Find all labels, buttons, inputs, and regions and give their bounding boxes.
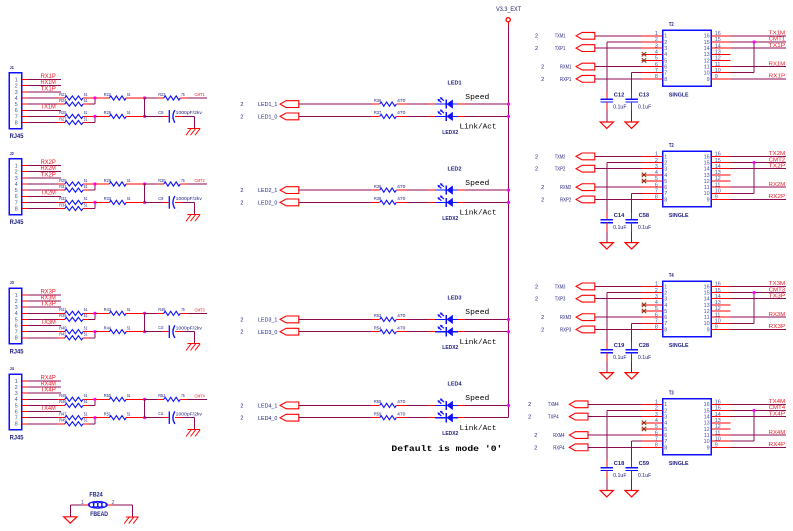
chassis ground: [124, 517, 138, 524]
svg-text:2: 2: [240, 317, 243, 323]
wire net TX3M: [731, 281, 787, 287]
port TXP2: [535, 165, 595, 172]
junction: [93, 96, 96, 99]
resistor R59 470: [372, 417, 380, 419]
text Link/Act: [460, 210, 497, 218]
chassis ground: [186, 128, 200, 135]
svg-text:2: 2: [528, 415, 531, 421]
svg-text:RX3M: RX3M: [41, 295, 56, 301]
junction: [143, 182, 146, 185]
junction on rail: [507, 318, 510, 321]
svg-text:C58: C58: [639, 213, 650, 219]
svg-text:TXP4: TXP4: [548, 415, 559, 421]
wire J1 pin 1: [22, 74, 61, 80]
right pin stubs: [711, 404, 730, 447]
wire net RX1P: [731, 74, 787, 80]
wire cap to ground: [631, 223, 633, 243]
svg-text:6: 6: [15, 194, 18, 200]
port LED2_0: [240, 199, 298, 207]
junction: [143, 96, 146, 99]
svg-text:RX3P: RX3P: [769, 324, 786, 330]
svg-text:51: 51: [127, 196, 131, 201]
svg-text:1: 1: [15, 293, 18, 299]
resistor R54 470: [372, 331, 380, 333]
svg-text:R37: R37: [374, 110, 382, 115]
svg-text:6: 6: [664, 433, 667, 439]
text Speed: [465, 309, 489, 317]
svg-text:51: 51: [127, 393, 131, 398]
wire RXM3 to pin: [595, 316, 642, 318]
resistor R29 51: [95, 183, 110, 185]
wire TXM2 to pin: [595, 155, 642, 157]
wire to junction: [126, 183, 144, 185]
wire pin 2 to C18: [607, 410, 642, 467]
svg-text:6: 6: [664, 315, 667, 321]
port LED2_1: [240, 187, 298, 195]
capacitor C9 1000pF/2kv: [145, 196, 203, 209]
svg-text:2: 2: [240, 114, 243, 120]
wire RXM4 to pin: [588, 434, 642, 436]
resistor R41 51: [59, 307, 88, 315]
capacitor C14 0.1uF: [601, 213, 627, 231]
wire to junction: [126, 115, 144, 117]
wire J2 pin 4: [22, 183, 65, 185]
wire cap to ground: [631, 353, 633, 373]
svg-text:0.1uF: 0.1uF: [613, 473, 627, 479]
junction: [93, 330, 96, 333]
port TXP3: [535, 295, 595, 302]
svg-text:2: 2: [541, 185, 544, 191]
svg-text:R31: R31: [59, 184, 67, 189]
resistor R34 51: [59, 202, 88, 210]
wire RXM1 to pin: [595, 66, 642, 68]
resistor R55 470: [372, 404, 380, 406]
resistor R45 75: [145, 312, 164, 314]
svg-text:R51: R51: [104, 411, 112, 416]
svg-text:6: 6: [664, 185, 667, 191]
wire J3 pin 4: [22, 312, 65, 314]
wire net CMT2: [731, 157, 787, 163]
svg-text:1: 1: [664, 34, 667, 40]
resistor R23 75: [145, 97, 164, 99]
resistor R30 75: [145, 183, 164, 185]
wire J4 pin 3: [22, 388, 61, 394]
resistor R39 470: [372, 201, 380, 203]
wire J1 pin 7: [22, 115, 65, 117]
wire net RX2M: [731, 182, 787, 188]
port LED3_1: [240, 316, 298, 324]
junction: [753, 409, 756, 412]
svg-text:LED3: LED3: [448, 296, 463, 302]
svg-text:12: 12: [704, 427, 710, 433]
connector J4 RJ45: [9, 366, 24, 441]
label LEDX2: [442, 216, 458, 222]
resistor R43 51: [95, 312, 110, 314]
svg-text:0.1uF: 0.1uF: [613, 105, 627, 111]
svg-text:R52: R52: [158, 393, 166, 398]
svg-text:Speed: Speed: [465, 309, 489, 317]
power ground: [625, 373, 638, 379]
svg-text:LED4: LED4: [448, 382, 463, 388]
svg-text:0.1uF: 0.1uF: [613, 225, 627, 231]
wire LED to rail: [458, 201, 508, 203]
svg-text:RJ45: RJ45: [10, 435, 24, 442]
power ground: [600, 373, 613, 379]
svg-text:Link/Act: Link/Act: [460, 124, 497, 132]
text Speed: [465, 180, 489, 188]
no-connect pin 4: [642, 173, 646, 177]
svg-text:C18: C18: [614, 461, 625, 467]
wire pin 10 to CMT net: [731, 293, 755, 324]
svg-text:RX4M: RX4M: [41, 381, 56, 387]
transformer T4: [663, 273, 712, 349]
svg-text:5: 5: [15, 317, 18, 323]
svg-text:RX4P: RX4P: [769, 442, 786, 448]
svg-text:R45: R45: [158, 307, 166, 312]
LED diode LED2_1: [435, 183, 458, 195]
svg-text:9: 9: [707, 327, 710, 333]
svg-text:16: 16: [704, 154, 710, 160]
svg-text:R39: R39: [374, 196, 382, 201]
label LEDX2: [442, 130, 458, 136]
wire to junction: [126, 417, 144, 419]
wire TXM4 to pin: [588, 403, 642, 405]
power ground: [64, 517, 77, 523]
svg-text:8: 8: [664, 77, 667, 83]
junction: [143, 398, 146, 401]
svg-text:TX1M: TX1M: [769, 31, 786, 37]
svg-text:RX2P: RX2P: [769, 194, 786, 200]
svg-text:TXP1: TXP1: [555, 46, 566, 52]
svg-text:R24: R24: [59, 98, 67, 103]
svg-text:R36: R36: [374, 98, 382, 103]
port RXP2: [541, 196, 595, 203]
svg-text:R27: R27: [59, 116, 67, 121]
svg-text:8: 8: [15, 120, 18, 126]
wire pair join: [83, 332, 95, 338]
svg-text:C14: C14: [614, 213, 625, 219]
svg-text:R49: R49: [59, 418, 67, 423]
capacitor C11 1000pF/2kv: [145, 411, 203, 424]
svg-text:LED3_1: LED3_1: [258, 318, 277, 324]
wire J1 pin 3: [22, 86, 61, 92]
svg-text:11: 11: [704, 315, 710, 321]
wire pin 7 to C58: [632, 193, 642, 220]
svg-text:4: 4: [15, 96, 18, 102]
wire port to resistor: [299, 189, 372, 191]
wire J3 pin 1: [22, 289, 61, 295]
svg-text:2: 2: [541, 197, 544, 203]
wire port to resistor: [299, 404, 372, 406]
capacitor C19 0.1uF: [601, 343, 627, 361]
LED diode LED1_1: [435, 97, 458, 109]
label LEDX2: [442, 431, 458, 437]
wire pair join: [83, 202, 95, 208]
svg-text:R23: R23: [158, 92, 166, 97]
wire to junction: [126, 97, 144, 99]
resistor R42 51: [59, 332, 88, 340]
svg-text:CMT1: CMT1: [195, 92, 206, 97]
wire to junction: [126, 201, 144, 203]
svg-text:TXM1: TXM1: [555, 34, 566, 40]
svg-text:3: 3: [15, 305, 18, 311]
resistor R26 51: [95, 115, 110, 117]
wire pair join: [83, 98, 95, 104]
svg-text:CMT2: CMT2: [769, 157, 786, 163]
svg-text:1: 1: [664, 402, 667, 408]
svg-text:10: 10: [704, 439, 710, 445]
power ground: [600, 491, 613, 497]
svg-text:4: 4: [15, 182, 18, 188]
junction: [143, 416, 146, 419]
svg-text:C9: C9: [158, 196, 163, 202]
junction on rail: [507, 103, 510, 106]
wire net TX2P: [731, 163, 787, 169]
resistor R49 51: [59, 418, 88, 426]
resistor R32 51: [59, 196, 88, 204]
svg-text:1000pF/2kv: 1000pF/2kv: [176, 411, 203, 416]
svg-text:2: 2: [664, 290, 667, 296]
capacitor C10 1000pF/2kv: [145, 325, 203, 338]
svg-text:LED2: LED2: [448, 166, 462, 172]
port TXP4: [528, 413, 588, 420]
wire cap to ground: [606, 223, 608, 243]
wire V3.3_EXT rail: [508, 22, 510, 418]
svg-text:15: 15: [704, 40, 710, 46]
svg-text:51: 51: [127, 178, 131, 183]
svg-text:C11: C11: [158, 411, 163, 417]
wire resistor to LED: [396, 404, 435, 406]
label LED2: [448, 166, 462, 172]
wire cap to ground: [631, 102, 633, 122]
power ground: [600, 122, 613, 128]
svg-text:9: 9: [707, 77, 710, 83]
svg-text:7: 7: [15, 416, 18, 422]
svg-text:8: 8: [15, 422, 18, 428]
svg-text:4: 4: [664, 173, 667, 179]
wire net TX4P: [731, 411, 787, 417]
svg-text:2: 2: [240, 403, 243, 409]
svg-text:LEDX2: LEDX2: [442, 216, 458, 222]
svg-text:2: 2: [240, 102, 243, 108]
svg-text:51: 51: [84, 98, 88, 103]
capacitor C18 0.1uF: [601, 461, 627, 479]
svg-text:1: 1: [15, 379, 18, 385]
svg-text:8: 8: [15, 336, 18, 342]
svg-text:TXM2: TXM2: [555, 154, 566, 160]
connector J1 RJ45: [9, 65, 24, 140]
resistor R47 51: [59, 411, 88, 419]
junction: [93, 398, 96, 401]
chassis ground: [186, 344, 200, 351]
left pin stubs: [642, 36, 663, 79]
svg-text:7: 7: [15, 200, 18, 206]
svg-text:51: 51: [84, 178, 88, 183]
wire pair join: [83, 116, 95, 122]
wire bead pin 1: [70, 505, 88, 517]
svg-text:5: 5: [15, 403, 18, 409]
wire J2 pin 2: [22, 166, 61, 172]
wire net TX4M: [731, 399, 787, 405]
svg-text:FB24: FB24: [89, 493, 103, 499]
no-connect pin 4: [642, 303, 646, 307]
pin numbers: [655, 152, 721, 204]
transformer T2: [663, 22, 712, 98]
svg-text:75: 75: [181, 92, 185, 97]
wire port to resistor: [299, 115, 372, 117]
svg-text:3: 3: [664, 46, 667, 52]
transformer T3: [663, 391, 712, 467]
pin numbers: [655, 282, 721, 334]
wire port to resistor: [299, 103, 372, 105]
svg-text:470: 470: [397, 196, 406, 201]
svg-text:2: 2: [541, 64, 544, 70]
svg-text:TX3M: TX3M: [769, 281, 786, 287]
wire node CMT3: [180, 307, 207, 313]
svg-text:14: 14: [704, 46, 710, 52]
capacitor C28 0.1uF: [625, 343, 651, 361]
svg-text:51: 51: [84, 196, 88, 201]
wire LED to rail: [458, 404, 508, 406]
port RXP3: [541, 326, 595, 333]
svg-text:11: 11: [704, 185, 710, 191]
svg-text:2: 2: [664, 160, 667, 166]
svg-text:10: 10: [704, 71, 710, 77]
svg-text:SINGLE: SINGLE: [669, 213, 689, 219]
svg-text:8: 8: [15, 206, 18, 212]
LED diode LED1_0: [435, 109, 458, 121]
svg-text:RJ45: RJ45: [10, 219, 24, 226]
wire LED to rail: [458, 318, 508, 320]
wire port to resistor: [299, 318, 372, 320]
junction on rail: [507, 115, 510, 118]
port RXM4: [534, 432, 588, 439]
svg-text:R22: R22: [104, 92, 112, 97]
no-connect pin 5: [642, 309, 646, 313]
svg-text:1000pF/2kv: 1000pF/2kv: [176, 325, 203, 330]
wire J1 pin 6: [22, 105, 61, 111]
svg-text:RXM4: RXM4: [553, 433, 564, 439]
svg-text:51: 51: [84, 307, 88, 312]
svg-text:2: 2: [535, 154, 538, 160]
svg-text:2: 2: [15, 299, 18, 305]
resistor R31 51: [59, 184, 88, 192]
svg-text:13: 13: [704, 173, 710, 179]
label LED3: [448, 296, 463, 302]
port RXM3: [541, 314, 595, 321]
wire net CMT3: [731, 287, 787, 293]
svg-text:R50: R50: [104, 393, 112, 398]
wire J2 pin 6: [22, 191, 61, 197]
svg-text:R38: R38: [374, 184, 382, 189]
svg-text:1000pF/2kv: 1000pF/2kv: [176, 110, 203, 115]
svg-text:R26: R26: [104, 110, 112, 115]
right pin stubs: [711, 286, 730, 329]
wire J2 pin 7: [22, 201, 65, 203]
no-connect pin 4: [642, 421, 646, 425]
svg-text:RX2M: RX2M: [41, 166, 56, 172]
svg-text:8: 8: [664, 197, 667, 203]
svg-text:RXM3: RXM3: [560, 315, 571, 321]
svg-text:8: 8: [664, 445, 667, 451]
connector J3 RJ45: [9, 280, 24, 355]
svg-text:3: 3: [15, 90, 18, 96]
wire TXM3 to pin: [595, 285, 642, 287]
svg-text:5: 5: [664, 58, 667, 64]
wire to junction: [126, 331, 144, 333]
svg-text:2: 2: [240, 200, 243, 206]
capacitor C12 0.1uF: [601, 93, 627, 111]
svg-text:LED3_0: LED3_0: [258, 330, 277, 336]
svg-text:51: 51: [84, 110, 88, 115]
svg-text:6: 6: [664, 64, 667, 70]
svg-text:470: 470: [397, 412, 406, 417]
svg-text:C19: C19: [614, 343, 625, 349]
svg-text:TX4M: TX4M: [769, 399, 786, 405]
label LEDX2: [442, 345, 458, 351]
resistor R28 51: [59, 178, 88, 186]
svg-text:13: 13: [704, 303, 710, 309]
wire J4 pin 1: [22, 375, 61, 381]
wire pin 7 to C59: [632, 441, 642, 468]
svg-text:51: 51: [127, 92, 131, 97]
junction on rail: [507, 201, 510, 204]
svg-text:2: 2: [15, 170, 18, 176]
wire J4 pin 6: [22, 406, 61, 412]
svg-text:RJ45: RJ45: [10, 349, 24, 356]
svg-text:4: 4: [664, 52, 667, 58]
wire resistor to LED: [396, 103, 435, 105]
wire cap to ground: [606, 353, 608, 373]
wire J3 pin 8: [22, 337, 65, 339]
svg-text:11: 11: [704, 64, 710, 70]
svg-text:470: 470: [397, 110, 406, 115]
svg-text:Speed: Speed: [465, 94, 489, 102]
svg-text:7: 7: [15, 114, 18, 120]
text Speed: [465, 395, 489, 403]
svg-text:3: 3: [664, 415, 667, 421]
power ground: [625, 122, 638, 128]
svg-text:10: 10: [704, 321, 710, 327]
wire cap to ground: [631, 471, 633, 491]
svg-text:RXP1: RXP1: [560, 77, 571, 83]
text Link/Act: [460, 339, 497, 347]
wire J1 pin 4: [22, 97, 65, 99]
svg-text:R40: R40: [59, 325, 67, 330]
svg-text:5: 5: [664, 427, 667, 433]
svg-text:TX3P: TX3P: [769, 293, 786, 299]
svg-text:TX4M: TX4M: [41, 406, 56, 412]
svg-text:2: 2: [535, 284, 538, 290]
svg-text:SINGLE: SINGLE: [669, 461, 689, 467]
wire J1 pin 2: [22, 80, 61, 86]
svg-text:CMT3: CMT3: [195, 307, 206, 312]
wire pin 2 to C12: [607, 42, 642, 99]
svg-text:12: 12: [704, 179, 710, 185]
svg-text:2: 2: [535, 34, 538, 40]
svg-text:RX3P: RX3P: [41, 289, 56, 295]
LED diode LED4_1: [435, 398, 458, 410]
junction: [753, 40, 756, 43]
label LED4: [448, 382, 463, 388]
junction: [143, 312, 146, 315]
svg-text:R33: R33: [104, 196, 112, 201]
wire LED to rail: [458, 115, 508, 117]
svg-text:C10: C10: [158, 325, 163, 331]
svg-text:TX3P: TX3P: [41, 302, 56, 308]
svg-text:2: 2: [240, 330, 243, 336]
svg-text:2: 2: [541, 77, 544, 83]
